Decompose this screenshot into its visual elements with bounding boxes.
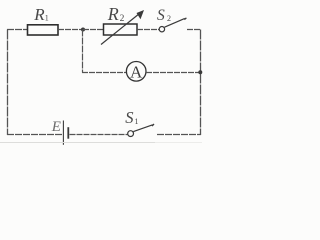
wire R1 to node A bbox=[58, 29, 83, 31]
svg-text:R: R bbox=[107, 4, 119, 24]
label E bbox=[51, 119, 61, 135]
ammeter U1 bbox=[126, 62, 146, 82]
svg-text:2: 2 bbox=[167, 14, 171, 23]
svg-text:1: 1 bbox=[135, 117, 139, 126]
svg-text:S: S bbox=[157, 7, 165, 24]
wire branch vertical from node A bbox=[82, 30, 84, 73]
switch S1 bbox=[128, 124, 154, 137]
wire branch to ammeter bbox=[82, 72, 127, 74]
resistor R1 bbox=[28, 25, 59, 35]
wire node A to R2 bbox=[83, 29, 104, 31]
wire bottom left to battery bbox=[7, 134, 63, 136]
wire S1 to bottom right corner bbox=[157, 134, 201, 136]
node A junction dot bbox=[81, 28, 85, 32]
svg-text:2: 2 bbox=[120, 14, 125, 24]
svg-text:1: 1 bbox=[45, 13, 49, 22]
wire ammeter to node B bbox=[146, 72, 201, 74]
node B junction dot bbox=[198, 70, 202, 74]
label R1 bbox=[33, 5, 49, 24]
switch S2 bbox=[159, 18, 186, 32]
svg-text:R: R bbox=[33, 5, 45, 24]
wire left vertical bbox=[7, 30, 9, 136]
wire battery to S1 bbox=[70, 134, 128, 136]
svg-text:E: E bbox=[51, 119, 61, 135]
label R2 bbox=[107, 4, 125, 24]
label S2 bbox=[157, 7, 171, 24]
battery E bbox=[63, 121, 68, 145]
rheostat R2 bbox=[101, 10, 144, 45]
svg-text:A: A bbox=[130, 63, 143, 82]
svg-text:S: S bbox=[125, 108, 133, 127]
wire top left to R1 bbox=[7, 29, 28, 31]
label S1 bbox=[125, 108, 138, 127]
wire R2 to S2 bbox=[137, 29, 159, 31]
wire S2 to top right corner bbox=[187, 29, 201, 31]
scan artifact faint line bbox=[0, 142, 202, 144]
wire right vertical bbox=[200, 30, 202, 136]
